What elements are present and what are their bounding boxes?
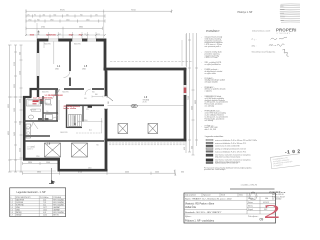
left extension lines	[10, 41, 56, 171]
notes bullet list	[201, 36, 229, 132]
svg-text:270: 270	[95, 14, 98, 16]
svg-text:na výšku prekladačov: na výšku prekladačov	[205, 63, 221, 66]
svg-text:1.1: 1.1	[11, 200, 13, 202]
svg-text:Pôdorys 1. NP: Pôdorys 1. NP	[238, 11, 253, 14]
interior wall y136	[25, 135, 50, 137]
stamp lower bar	[230, 188, 275, 190]
bathroom fixtures	[26, 100, 53, 139]
svg-text:1.2: 1.2	[11, 202, 13, 204]
company info top right	[269, 191, 286, 200]
terrace step line	[108, 104, 184, 106]
svg-text:1900: 1900	[46, 162, 50, 164]
svg-text:nové murivo, nové prieč. murov: nové murivo, nové prieč. murované zo sta…	[215, 159, 251, 162]
interior wall bathroom vertical x43	[42, 96, 44, 121]
top dimension chain 1 (outermost)	[26, 10, 172, 14]
interior wall y113	[43, 112, 58, 114]
red window annotations	[30, 34, 83, 36]
svg-text:murivo zo tehloblokov P+D hr: murivo zo tehloblokov P+D hr. 440 mm P15…	[215, 139, 257, 142]
svg-text:6800: 6800	[195, 100, 197, 104]
svg-text:1125: 1125	[97, 34, 101, 36]
svg-text:800: 800	[92, 92, 95, 94]
svg-text:1.3: 1.3	[27, 98, 29, 100]
svg-text:2150: 2150	[14, 62, 16, 66]
red window marks on left wall	[33, 101, 39, 103]
X-post 2 in terrace	[148, 124, 158, 134]
svg-text:525: 525	[66, 14, 69, 16]
bottom wall of right wing	[105, 139, 187, 142]
left step wall (double step)	[30, 88, 39, 90]
svg-text:v odpočtu: v odpočtu	[205, 90, 212, 93]
svg-text:-: -	[201, 37, 202, 39]
svg-text:250: 250	[84, 34, 87, 36]
legend footnote	[204, 166, 252, 171]
bottom dimension chain (outermost)	[23, 172, 176, 175]
svg-text:Legenda materiálov :: Legenda materiálov :	[205, 135, 225, 138]
svg-text:452: 452	[43, 14, 46, 16]
svg-text:tel.: 02/4342: tel.: 02/4342	[272, 197, 281, 200]
north arrow symbol top-left	[38, 31, 40, 36]
svg-text:3862: 3862	[79, 27, 83, 29]
svg-text:murivo zo tehloblokov P+D hr: murivo zo tehloblokov P+D hr. 300 mm P 1…	[215, 142, 246, 145]
svg-text:nosné murivo hr. 250 a tehel: nosné murivo hr. 250 a tehelné BD	[215, 145, 240, 148]
svg-text:Názov : HRIADKY 21.2 - Bratisl: Názov : HRIADKY 21.2 - Bratislava 82, pa…	[185, 198, 233, 201]
svg-text:900/1970: 900/1970	[44, 44, 51, 46]
GB oval	[131, 104, 137, 107]
svg-text:2250: 2250	[36, 156, 40, 158]
svg-text:nové murivo, nové prieč. murov: nové murivo, nové prieč. murované zo sta…	[215, 154, 251, 157]
svg-text:dňa :: dňa :	[252, 45, 257, 47]
right dim rotated labels	[184, 96, 197, 150]
svg-text:900: 900	[19, 52, 21, 55]
svg-text:viď výpis skladieb: viď výpis skladieb	[205, 82, 218, 84]
interior wall horizontal y88	[37, 88, 104, 90]
svg-text:Pri murovacích prácach nutn: Pri murovacích prácach nutno dodržiavať …	[204, 166, 252, 169]
step down wall	[58, 158, 60, 172]
left vertical dimension chain 3	[20, 45, 23, 172]
svg-text:1.5: 1.5	[84, 66, 88, 68]
svg-text:Veľká Čila: Veľká Čila	[185, 206, 196, 209]
svg-text:P1: P1	[53, 182, 56, 184]
svg-text:1.8: 1.8	[47, 144, 51, 146]
svg-text:4400: 4400	[88, 168, 92, 170]
svg-text:ost. odchody: ost. odchody	[205, 105, 215, 108]
extension lines from top chains	[26, 10, 186, 67]
legend material row 2	[206, 142, 246, 145]
svg-text:9025: 9025	[8, 104, 10, 108]
svg-text:1600/1970: 1600/1970	[60, 132, 68, 134]
shatnik wall x83	[82, 106, 84, 122]
svg-text:keram. dlažba: keram. dlažba	[64, 107, 77, 110]
svg-text:Stavebník : NO 31.5 – IRS "VIB: Stavebník : NO 31.5 – IRS "VIBIČKY"	[185, 211, 222, 214]
wall between left block and terrace (vertical mid)	[105, 39, 106, 172]
dark fixture blocks	[40, 99, 43, 104]
legend material row 8	[206, 162, 239, 165]
svg-text:7150: 7150	[188, 96, 190, 100]
svg-text:3830: 3830	[28, 162, 32, 164]
svg-text:1900: 1900	[14, 108, 16, 112]
window dimension row with red marks above top wall	[26, 34, 105, 36]
svg-text:POZNÁMKY:: POZNÁMKY:	[206, 30, 220, 33]
svg-text:1.4: 1.4	[11, 207, 13, 209]
svg-text:v SPS s t. 15 mm: v SPS s t. 15 mm	[205, 56, 219, 59]
svg-text:1500: 1500	[69, 34, 74, 36]
tick marks on window dim row	[25, 10, 173, 36]
left dim rotated labels	[8, 52, 21, 152]
svg-text:2762: 2762	[41, 27, 45, 29]
svg-text:1250: 1250	[19, 71, 21, 75]
svg-text:800: 800	[95, 94, 98, 96]
small interior dim line corridor	[44, 42, 103, 120]
red window in right wall	[184, 88, 187, 94]
signature squiggle	[283, 49, 289, 56]
top dimension chain 3 labels	[28, 19, 90, 21]
svg-text:Výkres :: Výkres :	[185, 216, 192, 218]
right vertical dimension chains	[187, 33, 199, 155]
svg-text:2400: 2400	[155, 172, 159, 174]
svg-text:TERASA: TERASA	[143, 99, 150, 102]
circle stamp in title block	[249, 192, 257, 200]
svg-text:1950: 1950	[50, 19, 54, 21]
interior wall bathroom horizontal y121	[24, 120, 58, 122]
svg-text:1.2: 1.2	[45, 103, 47, 105]
svg-text:1500: 1500	[30, 34, 35, 36]
X-post 1 in terrace	[118, 124, 128, 134]
svg-text:2250: 2250	[19, 148, 21, 152]
svg-text:900/1970: 900/1970	[107, 91, 109, 98]
svg-text:900: 900	[37, 34, 40, 36]
X-box 1 in garage	[45, 143, 61, 157]
small dim texts inside plan	[30, 44, 109, 112]
svg-text:650: 650	[54, 14, 57, 16]
top dimension chain 2 labels	[27, 14, 98, 16]
svg-text:-: -	[201, 62, 202, 64]
svg-text:630: 630	[181, 172, 184, 174]
svg-text:4025: 4025	[8, 131, 10, 135]
svg-text:4400: 4400	[125, 172, 129, 174]
red annotation middle	[64, 105, 81, 110]
svg-text:275: 275	[86, 109, 89, 111]
stairs	[69, 115, 82, 127]
legend material row 6	[206, 154, 251, 159]
svg-text:1.3: 1.3	[11, 205, 13, 207]
svg-text:1500/1500: 1500/1500	[46, 34, 57, 36]
svg-text:Dokumentáciu overil:: Dokumentáciu overil:	[252, 29, 271, 32]
legend material row 5	[206, 150, 246, 153]
bottom dimension chain (inner, left part)	[23, 162, 60, 165]
svg-text:-: -	[201, 111, 202, 113]
interior wall garage top y141	[25, 140, 104, 142]
svg-text:1250: 1250	[19, 99, 21, 103]
svg-text:900: 900	[191, 146, 193, 149]
svg-text:-: -	[201, 125, 202, 127]
svg-text:1.6: 1.6	[11, 212, 13, 214]
svg-text:4,05: 4,05	[43, 212, 46, 214]
window lines in top wall gaps	[48, 39, 96, 41]
svg-text:3000: 3000	[191, 106, 193, 110]
svg-text:-: -	[201, 78, 202, 80]
legend material row 4	[206, 148, 247, 151]
svg-text:800/1970: 800/1970	[42, 92, 49, 94]
svg-text:800/1970: 800/1970	[74, 44, 81, 46]
svg-text:7,35: 7,35	[43, 202, 46, 204]
interior dim line y121.5	[78, 118, 102, 133]
svg-text:25,75: 25,75	[143, 102, 147, 104]
svg-text:Legenda miestností - 1. NP: Legenda miestností - 1. NP	[17, 191, 46, 194]
svg-text:pri riešení min. v nich kaž: pri riešení min. v nich každých	[204, 169, 225, 171]
svg-text:2250: 2250	[66, 19, 70, 21]
scattered plan annotation texts	[27, 92, 95, 170]
top wall of right wing	[104, 68, 187, 71]
svg-text:PROPERI: PROPERI	[276, 28, 296, 33]
svg-text:175: 175	[27, 14, 30, 16]
top dimension chain 4 labels	[41, 27, 83, 29]
dash-dot line below bottom wall	[109, 142, 186, 144]
svg-text:± 0,000 = 370,75: ± 0,000 = 370,75	[241, 185, 258, 187]
svg-text:13,42: 13,42	[43, 210, 47, 212]
svg-text:-: -	[201, 69, 202, 71]
svg-text:1.5: 1.5	[11, 210, 13, 212]
svg-text:-: -	[201, 96, 202, 98]
legend material row 3	[206, 145, 240, 148]
svg-text:900: 900	[80, 14, 83, 16]
section line and P1 symbol	[51, 168, 53, 184]
svg-text:2400: 2400	[19, 121, 21, 125]
left vertical dimension chain 1	[8, 45, 12, 172]
door jambs in mid wall opening	[104, 96, 113, 109]
svg-text:2450: 2450	[86, 19, 90, 21]
svg-text:90: 90	[34, 14, 36, 16]
top dimension chain 1 labels	[60, 9, 136, 11]
door leaf diagonals	[33, 89, 60, 129]
svg-text:750: 750	[96, 145, 99, 147]
interior wall vertical x70	[69, 42, 71, 72]
svg-text:murivo zo tehloblokov P+D hr: murivo zo tehloblokov P+D hr. 175 mm P 1…	[215, 150, 246, 153]
right exterior wall with window gap	[184, 68, 187, 141]
svg-text:1.7: 1.7	[11, 215, 13, 217]
top dimension chain 2	[26, 14, 105, 17]
interior wall vertical x57	[56, 89, 58, 121]
top exterior wall with window gaps	[37, 39, 106, 42]
svg-text:1.7 GARÁŽ: 1.7 GARÁŽ	[27, 146, 35, 149]
svg-text:Stavebný úrad Šalgočka: Stavebný úrad Šalgočka	[252, 50, 276, 53]
svg-text:2325: 2325	[14, 84, 16, 88]
svg-text:-: -	[201, 87, 202, 89]
GB box on corridor wall	[88, 105, 92, 108]
svg-text:3830: 3830	[37, 172, 41, 174]
svg-text:min. prierazmi podl. n.: min. prierazmi podl. n.	[205, 45, 222, 48]
svg-text:Mierka: Mierka	[248, 205, 253, 207]
svg-text:dole 1 -90, 908: dole 1 -90, 908	[205, 129, 216, 131]
thin partition line x53.8	[53, 42, 55, 65]
svg-text:1.4: 1.4	[57, 66, 61, 68]
svg-text:ost. odvody: ost. odvody	[205, 119, 214, 122]
svg-text:1.1: 1.1	[89, 130, 92, 132]
top dimension chain 3	[26, 19, 105, 22]
svg-text:625: 625	[59, 34, 62, 36]
svg-text:-: -	[201, 52, 202, 54]
svg-text:5,12: 5,12	[43, 205, 46, 207]
eaves dashed line above right wing	[110, 61, 193, 63]
svg-text:2400: 2400	[14, 132, 16, 136]
svg-text:900: 900	[108, 101, 110, 104]
upper-left exterior wall	[37, 39, 39, 98]
svg-text:2: 2	[264, 201, 281, 223]
svg-text:Č. j. :: Č. j. :	[252, 38, 257, 41]
svg-text:W 70/08: W 70/08	[30, 110, 36, 112]
bottom-right chain end	[174, 170, 176, 177]
bottom wall middle	[58, 169, 108, 172]
svg-text:1.9: 1.9	[144, 97, 148, 99]
svg-text:1.6: 1.6	[46, 111, 48, 113]
svg-text:4750: 4750	[78, 172, 82, 174]
legend material row 1	[206, 139, 257, 142]
svg-text:GB: GB	[132, 105, 136, 108]
svg-text:22,30: 22,30	[43, 215, 47, 217]
red annotation left	[33, 94, 63, 102]
interior wall vertical stairs x66	[66, 105, 68, 128]
svg-text:2050: 2050	[84, 120, 88, 122]
lower-left exterior wall	[23, 96, 26, 161]
legend material row 7	[206, 159, 251, 164]
svg-text:700/1970: 700/1970	[62, 92, 69, 94]
bottom wall of lower-left block	[23, 158, 60, 161]
svg-text:14,77: 14,77	[43, 207, 47, 209]
door swing arcs	[26, 89, 91, 129]
wall piers with hatch in bottom-left block	[38, 118, 42, 121]
svg-text:900: 900	[37, 19, 40, 21]
interior wall corridor y105	[66, 104, 104, 106]
svg-text:1750: 1750	[28, 19, 32, 21]
X-box 2 in garage	[72, 143, 88, 157]
svg-text:na výšku stavb.: na výšku stavb.	[205, 72, 217, 75]
svg-text:priečky zo tehlových priečkov: priečky zo tehlových priečkoviek hr. 115…	[215, 148, 247, 151]
left vertical dimension chain 2	[14, 45, 17, 172]
small gray texts between red marks on window row	[37, 34, 100, 36]
top dimension chain 4	[26, 27, 103, 30]
svg-text:900: 900	[84, 98, 87, 100]
svg-text:Pôdorys 1. NP - pochôdzny: Pôdorys 1. NP - pochôdzny	[185, 220, 215, 223]
garage room texts	[27, 145, 99, 151]
window in left wall	[37, 53, 39, 76]
svg-text:4,60: 4,60	[43, 200, 46, 202]
